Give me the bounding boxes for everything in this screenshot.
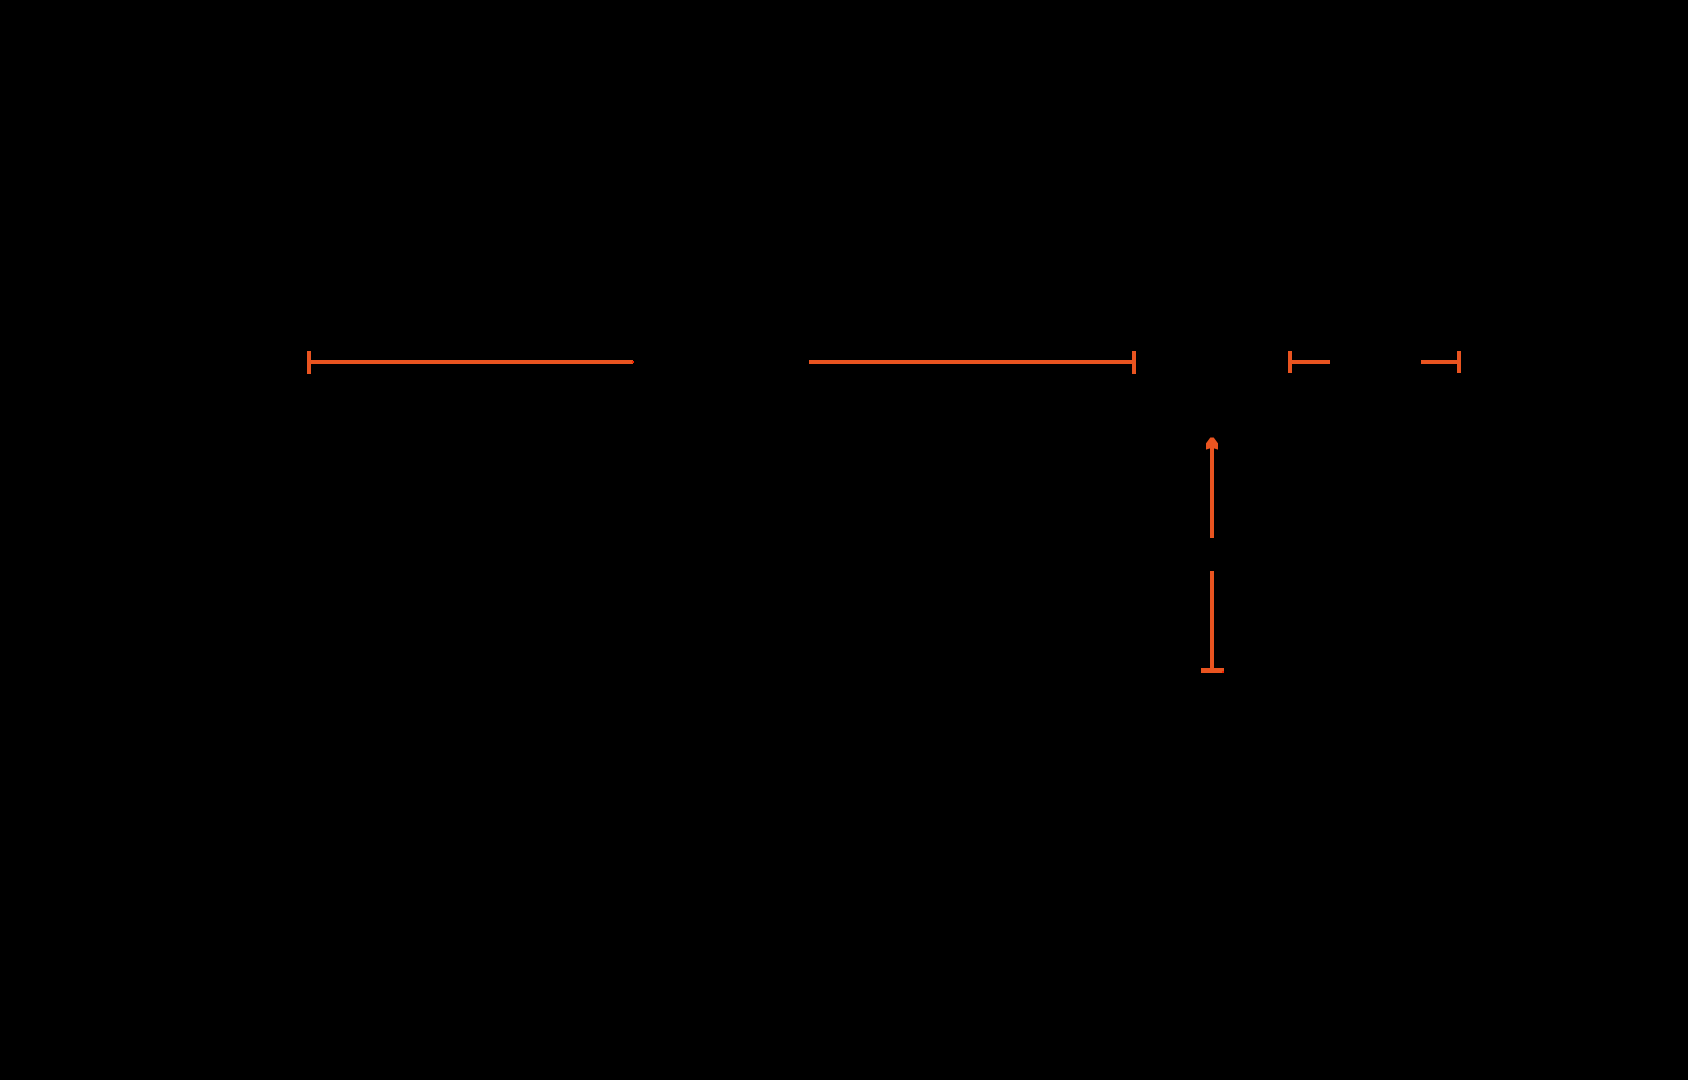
wire B-left segment (1288, 360, 1330, 364)
wire A-left segment (307, 360, 633, 364)
node A arrow-end dot (632, 361, 634, 364)
node C tick corner dot (1222, 671, 1224, 673)
tick A-right (1132, 351, 1136, 374)
tick C-bottom (1201, 668, 1224, 673)
tick B-right (1457, 351, 1461, 373)
tick B-left (1288, 351, 1292, 373)
wire C-lower segment (1210, 571, 1214, 668)
tick A-left (307, 351, 311, 374)
wire C-upper segment (1210, 444, 1214, 538)
wire A-right segment (809, 360, 1132, 364)
arrowhead C-top (points up) (1204, 436, 1220, 452)
wire B-right segment (1421, 360, 1461, 364)
